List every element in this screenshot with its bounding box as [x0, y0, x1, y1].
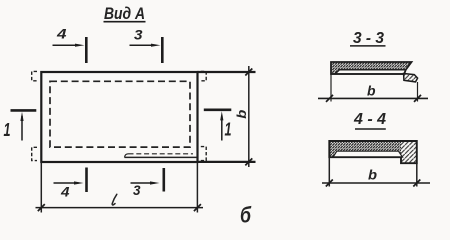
section 3-3 left extension: [330, 74, 332, 102]
section 4-4 hatched body: [329, 141, 401, 157]
svg-text:b: b: [368, 168, 377, 183]
svg-text:3: 3: [134, 27, 143, 43]
section 4-4 recess (white): [333, 151, 403, 157]
extension line left for L: [40, 162, 42, 213]
section 4-4 left extension: [328, 157, 330, 186]
dashed corner bracket top-left: [32, 71, 37, 80]
section 4-4 slash tick right: [413, 180, 420, 187]
svg-text:4: 4: [56, 26, 67, 42]
section 3-3 slash tick left: [326, 95, 333, 102]
svg-text:3 - 3: 3 - 3: [353, 30, 384, 47]
inner dashed rectangle (hidden contour): [50, 81, 190, 147]
right section-1 arrow: [221, 115, 223, 140]
svg-text:1: 1: [4, 120, 11, 140]
slash tick left of L: [38, 204, 45, 211]
bottom mark 4: arrow: [54, 182, 79, 184]
tick of top mark 4: [85, 37, 88, 63]
section 3-3 right extension: [417, 82, 419, 102]
dimension line L: [36, 207, 204, 209]
section 4-4 outline: [329, 141, 417, 163]
step ledge dashed line: [129, 153, 194, 155]
main rectangle (panel outline, view A): [41, 72, 197, 162]
bottom mark 4: tick: [85, 168, 88, 193]
section 4-4 dimension line b: [322, 182, 430, 184]
svg-text:4 - 4: 4 - 4: [353, 111, 386, 128]
dashed corner bracket bottom-left: [32, 147, 37, 160]
section 4-4 slash tick left: [326, 180, 333, 187]
svg-text:Вид А: Вид А: [104, 4, 145, 23]
arrow of top mark 3: [130, 44, 156, 46]
top extension for b dimension: [197, 71, 255, 73]
step ledge solid line near bottom edge: [125, 154, 129, 158]
svg-text:b: b: [367, 84, 376, 99]
dashed corner bracket bottom-right: [201, 147, 206, 161]
dimension line b (vertical): [248, 66, 250, 167]
section 3-3 recess line: [335, 70, 406, 74]
label L: [112, 194, 117, 205]
bottom extension for b dimension: [197, 161, 255, 163]
extension line right for L: [196, 162, 198, 213]
title underline: [104, 21, 146, 23]
section 3-3 dimension line b: [318, 97, 428, 99]
dashed corner bracket top-right: [201, 71, 206, 80]
bottom mark 3: tick: [163, 168, 166, 192]
right section-1 tick: [204, 109, 232, 112]
section 3-3 title underline: [350, 45, 386, 47]
section 3-3 foot (hatched): [404, 74, 418, 82]
slash tick bottom of b: [245, 158, 252, 165]
slash tick top of b: [245, 69, 252, 76]
svg-text:4: 4: [60, 184, 70, 200]
arrow of top mark 4: [53, 44, 80, 46]
svg-text:1: 1: [225, 120, 232, 140]
section 3-3 hatched band: [331, 62, 412, 74]
section 3-3 band bottom edge: [331, 73, 404, 75]
svg-text:b: b: [234, 110, 249, 119]
slash tick right of L: [194, 204, 201, 211]
left section-1 arrow: [21, 116, 23, 141]
section 3-3 slash tick right: [414, 95, 421, 102]
bottom mark 3: arrow: [131, 182, 155, 184]
svg-text:б: б: [240, 203, 252, 228]
section 4-4 title underline: [355, 128, 386, 130]
section 4-4 right extension: [416, 163, 418, 186]
left section-1 tick: [11, 109, 37, 112]
tick of top mark 3: [161, 37, 164, 63]
svg-text:3: 3: [133, 182, 141, 198]
